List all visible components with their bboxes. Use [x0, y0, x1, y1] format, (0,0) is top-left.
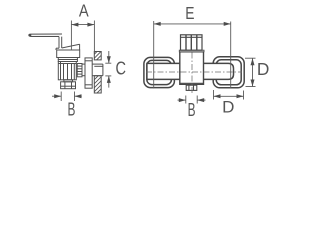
wall section (hatched) [90, 45, 106, 105]
svg-text:D: D [257, 59, 269, 79]
body flange band [58, 58, 77, 60]
right escutcheon [213, 57, 244, 88]
shoulder band [179, 50, 204, 52]
valve core column [58, 62, 76, 80]
neck [64, 80, 73, 82]
pipe stub to wall [82, 63, 85, 65]
svg-text:B: B [68, 100, 76, 120]
centerlines [146, 53, 242, 96]
svg-text:E: E [185, 4, 194, 23]
bottom nut [186, 85, 197, 90]
svg-text:B: B [188, 100, 196, 120]
ridge stack (union rings) [77, 64, 82, 77]
body bar (covers escutcheon inners) [147, 63, 234, 79]
cap left edge [56, 47, 59, 49]
left escutcheon [144, 57, 175, 87]
body top box [57, 50, 80, 58]
escutcheon (side view) [85, 58, 92, 88]
supply pipe through wall [92, 64, 103, 76]
cap right edge [79, 44, 81, 50]
handle stem [58, 37, 60, 49]
hex nut [61, 82, 76, 89]
cap diagonal [62, 44, 80, 48]
threaded pipe [181, 35, 203, 50]
svg-text:C: C [115, 59, 126, 79]
svg-text:D: D [222, 97, 234, 116]
svg-text:A: A [79, 1, 89, 20]
central block [180, 52, 204, 85]
lever handle [29, 34, 62, 37]
